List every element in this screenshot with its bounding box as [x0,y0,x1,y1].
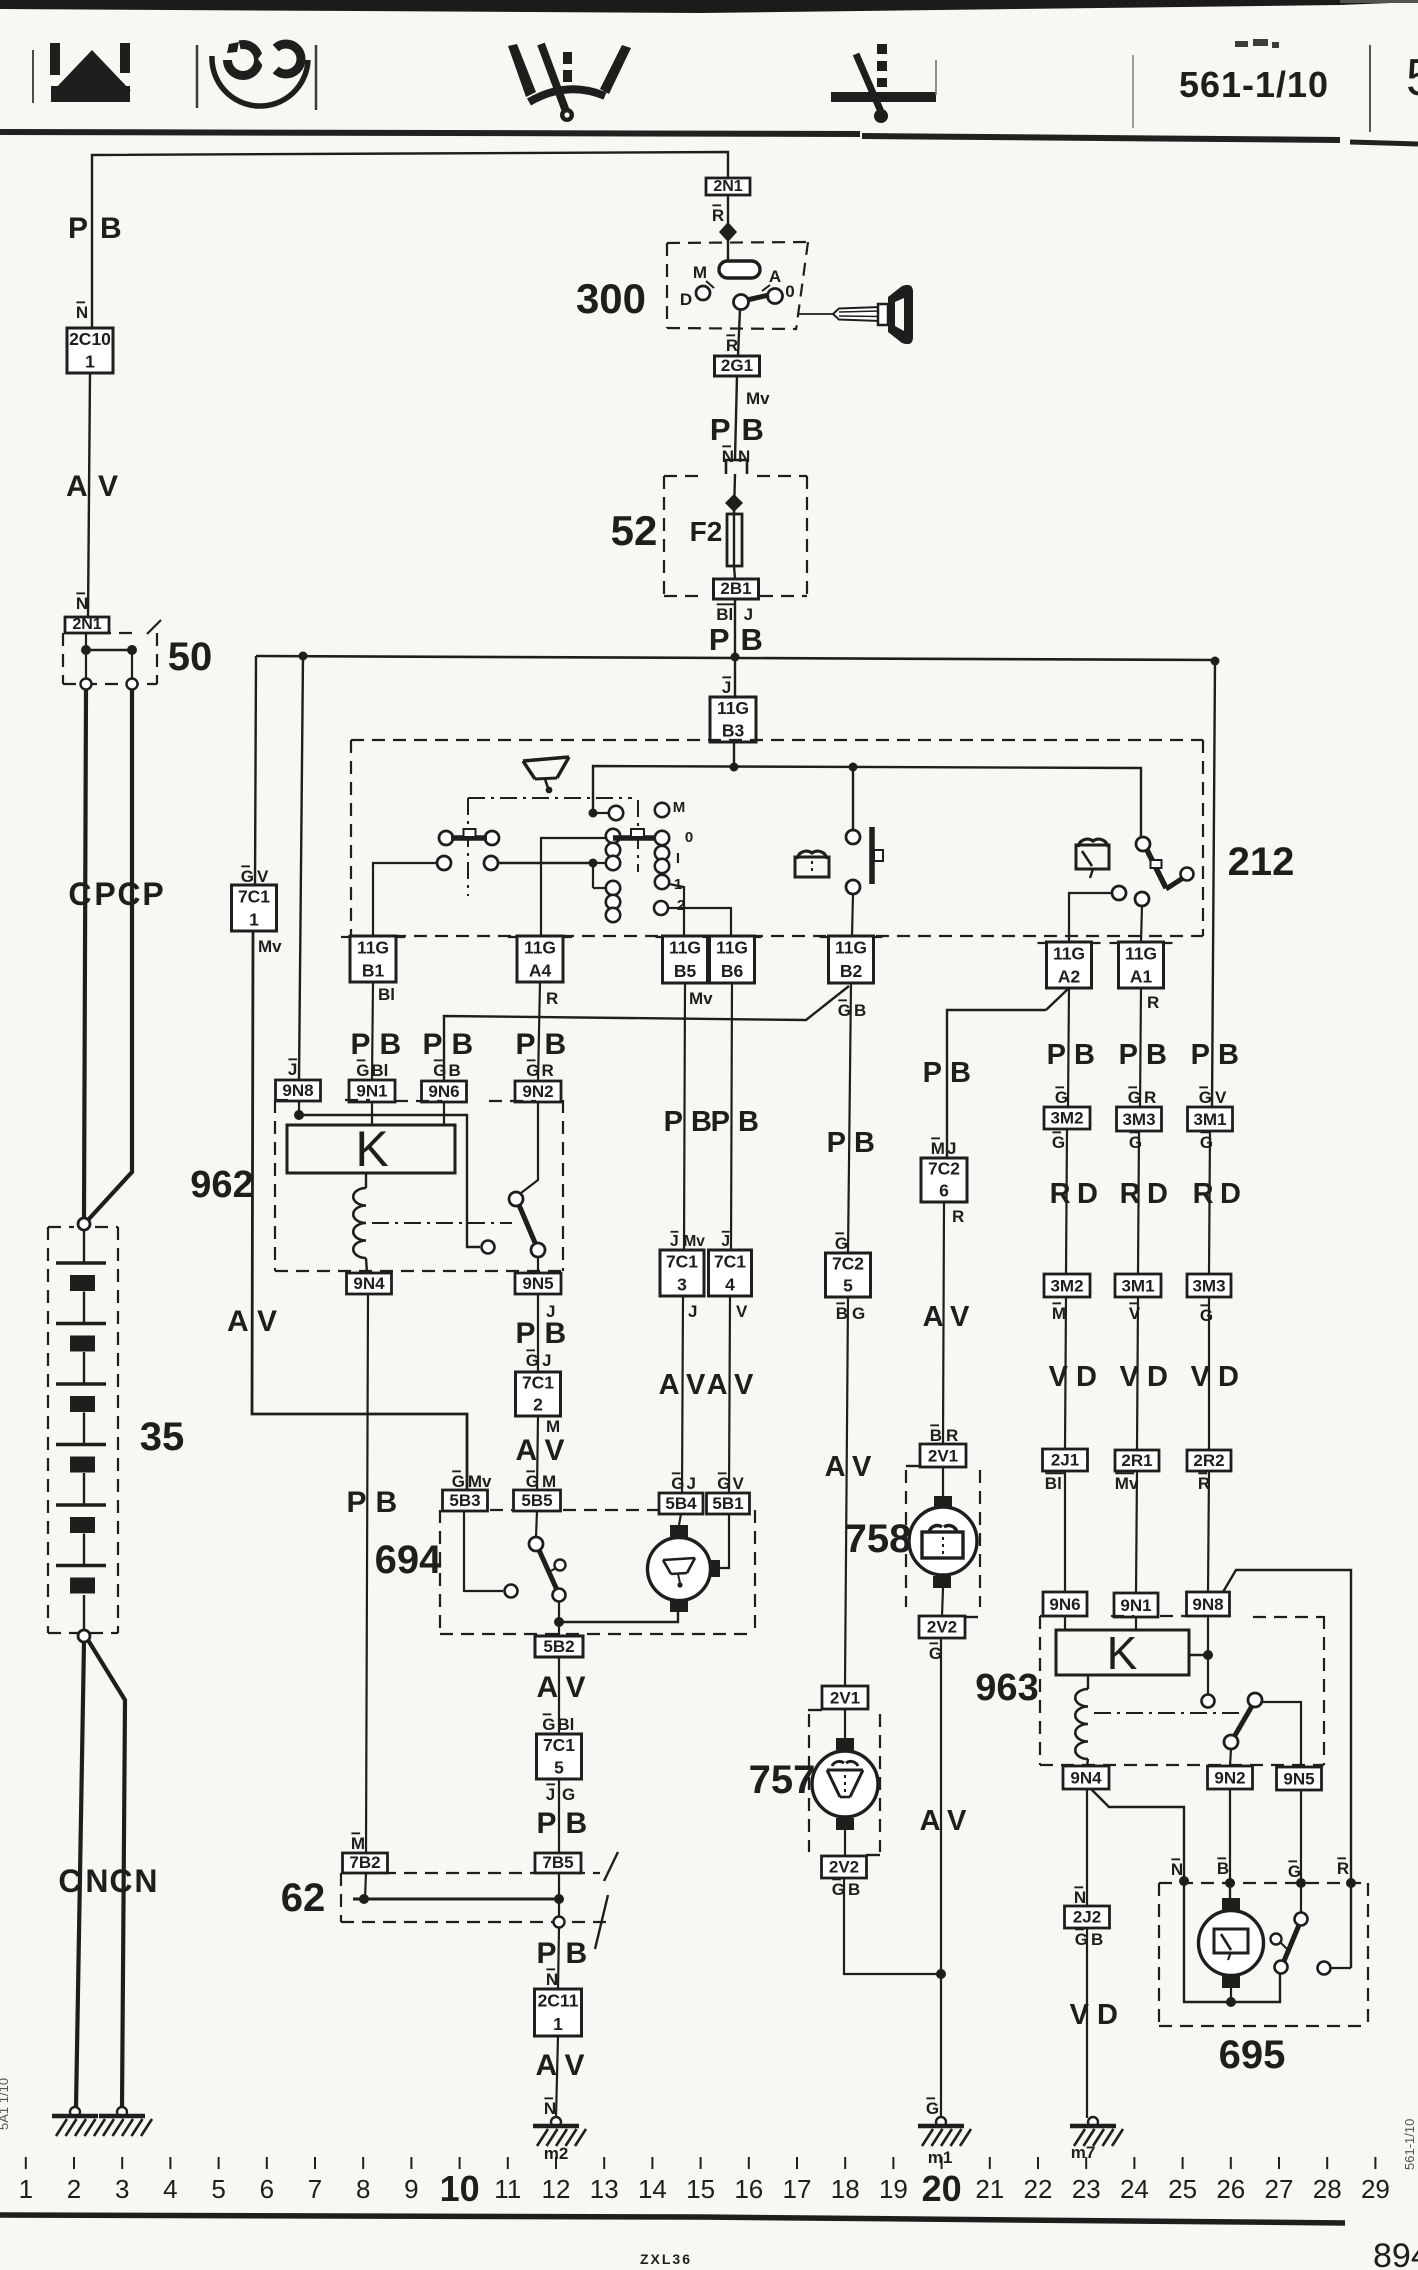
wires: 2J/2R row to 9N row [1064,1471,1066,1592]
node: N junction on 695 [1179,1876,1189,1886]
node: distribution junction at B3 [730,763,739,772]
svg-text:7: 7 [308,2174,322,2204]
relay NC contact circle [482,1241,495,1254]
svg-text:R: R [1050,1178,1071,1210]
svg-text:9N2: 9N2 [522,1082,553,1101]
svg-text:2B1: 2B1 [720,579,751,598]
connector 11G B3 [710,697,756,742]
connector 9N1 (right) [1114,1593,1158,1617]
connector 11G B2 [829,936,874,983]
svg-text:50: 50 [168,635,213,679]
wire: 11G B6 to 7C1-4 [731,983,732,1250]
svg-text:D: D [1097,1999,1118,2031]
connector 2N1 (left) [65,617,109,633]
svg-text:9N8: 9N8 [1192,1595,1223,1614]
connector 7C1 pin 5 [537,1734,582,1779]
wire: pump 758 to 2V2 [942,1588,943,1616]
svg-text:Bl: Bl [557,1715,574,1734]
svg-text:P: P [347,1486,367,1519]
svg-text:1: 1 [19,2174,33,2204]
node: bus corner right [1211,657,1220,666]
svg-text:4: 4 [163,2174,177,2204]
svg-text:2R1: 2R1 [1121,1451,1152,1470]
svg-text:V: V [98,470,118,503]
wire: park switch to 5B2 junction [558,1601,560,1636]
relay mechanical dash-dot link [372,1222,512,1224]
header icon: rear wiper pictogram [831,44,936,123]
wire: switch distribution line [593,766,1141,838]
svg-text:A: A [537,1671,559,1704]
svg-text:7B2: 7B2 [349,1853,380,1872]
connector 9N6 (left) [422,1081,467,1102]
connector 2V2 (front pump) [822,1856,867,1878]
svg-text:A: A [923,1301,944,1333]
svg-text:7C2: 7C2 [832,1254,864,1274]
svg-text:G: G [526,1472,539,1491]
svg-text:D: D [1220,1178,1241,1210]
svg-text:B: B [691,1106,712,1138]
node: pump earth junction [936,1969,946,1979]
svg-text:D: D [1077,1178,1098,1210]
wire: washer button to 11G B1 [373,863,437,936]
ignition switch 300 dashed box [667,242,808,243]
svg-text:9N1: 9N1 [356,1082,387,1101]
svg-text:29: 29 [1361,2174,1390,2204]
connector 2V2 (rear pump) [919,1616,965,1638]
svg-text:G: G [452,1472,465,1491]
svg-text:561-1/10: 561-1/10 [1402,2119,1417,2170]
svg-text:J: J [688,1302,697,1321]
svg-text:3M3: 3M3 [1122,1110,1155,1129]
svg-text:11G: 11G [835,938,867,958]
svg-text:B: B [376,1486,398,1519]
svg-text:2J1: 2J1 [1051,1451,1079,1470]
relay coil [365,1173,367,1188]
wire: 7C1-5 to 7B5 [558,1779,560,1853]
connector 2R1 [1115,1450,1159,1471]
svg-text:D: D [1147,1178,1168,1210]
connector 9N4 (right) [1063,1766,1109,1789]
rear wiper switch (in 212) [1112,837,1194,906]
svg-text:B: B [950,1057,971,1089]
svg-text:N: N [546,1970,558,1989]
svg-text:P: P [94,876,115,912]
svg-text:B: B [1217,1859,1229,1878]
svg-text:7C1: 7C1 [714,1251,746,1271]
svg-text:A4: A4 [529,960,552,980]
bottom border line [0,2215,1345,2223]
wire: ignition pivot to 2G1 [738,309,740,356]
svg-text:G: G [1288,1862,1301,1881]
svg-text:P: P [142,876,163,912]
svg-text:2G1: 2G1 [721,356,753,375]
svg-text:17: 17 [783,2174,812,2204]
svg-text:M: M [1052,1304,1066,1323]
inline connector staple symbol [726,460,747,474]
svg-text:V: V [257,1305,277,1338]
svg-text:R: R [542,1061,554,1080]
svg-text:C: C [68,876,91,912]
svg-text:M: M [351,1834,365,1853]
wire: top feed from battery column to ignition connector 2N1 [92,152,728,330]
node: G junction on 695 [1296,1878,1306,1888]
wire: 9N6 into K (963) [1064,1616,1066,1630]
wire: 5B1 to motor second brush [720,1514,729,1568]
svg-text:9N4: 9N4 [1070,1768,1102,1787]
node: junction under wiper motor [554,1617,564,1627]
wire: 2V2 to earth junction [844,1878,941,1974]
svg-text:G: G [838,1001,851,1020]
smudge mark above page reference [1235,39,1279,48]
wire: 2C10 to 2N1 [88,373,90,617]
relay switch (962) [509,1192,523,1206]
connector 11G A4 [517,936,563,982]
wire: 7C1-1 down and across to 5B3 [252,931,467,1490]
svg-text:1: 1 [249,909,259,929]
svg-text:2V2: 2V2 [927,1618,957,1637]
svg-text:B2: B2 [840,961,863,981]
wire: 2C11 to earth m2 [556,2036,558,2117]
svg-text:962: 962 [190,1164,253,1206]
wire: 11G B2 branch to 9N6 [444,986,849,1081]
wire: 2V1 to pump 757 [844,1709,846,1739]
front washer pump motor 757 [812,1738,878,1830]
svg-text:A: A [659,1369,680,1401]
connector 7C1 pin 1 [232,885,277,931]
wire: 9N4 to 2J2 [1086,1789,1088,1906]
svg-text:963: 963 [975,1667,1038,1709]
connector 3M1 (upper) [1188,1107,1233,1131]
svg-text:V: V [733,1474,745,1493]
contact circle 0/A [768,289,783,304]
wire: 11G B5 to 7C1-3 [684,983,685,1250]
wire: 2N1 to ignition switch [727,195,729,261]
svg-text:J: J [546,1785,555,1804]
svg-text:G: G [852,1304,865,1323]
header icon: ignition/steering-lock pictogram [212,33,308,106]
svg-text:R: R [546,989,558,1008]
node: bus junction at 9N8 feed [299,652,308,661]
svg-text:14: 14 [638,2174,667,2204]
svg-text:A: A [536,2049,558,2082]
wires: upper 3M row to lower 3M row [1066,1129,1067,1274]
svg-text:D: D [1147,1361,1168,1393]
fuse box 52 dashed outline [663,476,665,596]
wire: 9N8 junction to relay NC contact [299,1115,480,1247]
svg-text:11: 11 [494,2174,521,2204]
header icon: windscreen wiper-washer pictogram [508,44,631,122]
rear motor park switch [1295,1913,1308,1926]
connector 11G B5 [663,936,708,983]
svg-text:J: J [947,1139,956,1158]
svg-text:Mv: Mv [689,989,713,1008]
connector 2B1 [714,579,759,599]
svg-text:21: 21 [975,2174,1004,2204]
svg-text:27: 27 [1265,2174,1294,2204]
svg-text:P: P [923,1057,942,1089]
svg-text:2C10: 2C10 [69,329,111,349]
svg-text:ZXL36: ZXL36 [640,2251,692,2267]
connector 2V1 (rear pump) [920,1444,966,1467]
wire: 7C1-4 to 5B1 [729,1296,730,1493]
svg-text:3M1: 3M1 [1193,1110,1226,1129]
connector 9N6 (right) [1043,1592,1087,1616]
svg-text:5B1: 5B1 [712,1494,743,1513]
wire: 9N8 link over to rear-wiper unit [1223,1570,1351,1968]
connector 11G A1 [1119,942,1164,988]
front wiper motor 694 [648,1525,721,1612]
svg-text:N: N [738,447,750,466]
svg-text:2V1: 2V1 [830,1688,860,1707]
svg-text:F2: F2 [690,516,723,547]
svg-text:K: K [355,1121,388,1177]
svg-text:R: R [1144,1088,1156,1107]
svg-text:R: R [1193,1178,1214,1210]
contact circle D [696,286,710,300]
front washer pushbutton (in 212) [437,829,499,870]
wire: 9N5 to 7C1-2 [537,1294,539,1372]
svg-text:3: 3 [677,1274,687,1294]
wire: bus junction down to 9N8 (wiper relay) [299,656,303,1080]
svg-text:A2: A2 [1058,966,1081,986]
svg-text:7C1: 7C1 [666,1251,698,1271]
svg-text:N: N [544,2099,556,2118]
node: junction dots in unit 50 [85,633,87,650]
svg-text:P: P [1119,1039,1138,1071]
ignition rotor lever [747,295,769,300]
svg-text:G: G [1129,1133,1142,1152]
connector 3M2 (upper) [1044,1107,1090,1129]
wire: 9N1 into K box [371,1102,373,1125]
park switch NC contact (695) [1318,1962,1331,1975]
svg-text:B: B [930,1426,942,1445]
svg-text:6: 6 [260,2174,274,2204]
svg-text:M: M [673,799,686,816]
wire: staple to fuse F2 [734,474,735,514]
svg-text:2N1: 2N1 [713,178,742,195]
svg-text:18: 18 [831,2174,860,2204]
rear washer pump motor 758 [909,1496,977,1588]
svg-text:G: G [671,1474,684,1493]
svg-text:758: 758 [845,1517,912,1561]
svg-text:Bl: Bl [371,1061,388,1080]
svg-text:V: V [1120,1361,1140,1393]
svg-text:2: 2 [533,1395,543,1415]
svg-text:V: V [950,1301,970,1333]
svg-text:23: 23 [1072,2174,1101,2204]
connector 2C11 pin 1 [535,1989,582,2036]
svg-text:A: A [825,1451,846,1483]
wire: 2B1 to supply bus [734,598,736,657]
svg-text:R: R [1337,1859,1349,1878]
svg-text:P: P [709,622,730,657]
park switch NC contact circle [505,1585,518,1598]
svg-text:B3: B3 [722,720,745,740]
svg-text:11G: 11G [1053,943,1085,963]
svg-text:A: A [707,1369,728,1401]
svg-text:M: M [693,263,707,282]
wire: 9N1 into K (963) [1135,1617,1137,1630]
node: motor minus junction [1226,1997,1236,2007]
wire: thick battery lead left (C P) [84,690,86,1217]
wire: pump 757 to 2V2 [844,1830,846,1856]
svg-text:9N5: 9N5 [522,1274,553,1293]
ground m7 [1088,2117,1098,2127]
svg-text:B: B [449,1061,461,1080]
svg-text:12: 12 [542,2174,571,2204]
connector 7B2 [343,1853,388,1873]
svg-text:G: G [1055,1088,1068,1107]
svg-text:B: B [742,412,764,447]
svg-text:2R2: 2R2 [1193,1451,1224,1470]
connector 11G B1 [350,936,396,982]
svg-text:P: P [664,1106,683,1138]
svg-text:212: 212 [1228,840,1295,884]
wire: 9N5 to rear motor switch [1300,1790,1302,1913]
svg-text:m1: m1 [928,2148,953,2167]
svg-text:2V1: 2V1 [928,1446,958,1465]
connector 2J2 [1065,1906,1110,1928]
wire: 7B2 into link [365,1873,366,1899]
svg-text:1: 1 [85,351,95,371]
wire: 11G A4 to 9N2 [538,982,540,1081]
top scan edge bar [0,0,1418,13]
wire: bus left end down to 7C1 pin1 [255,656,256,885]
svg-text:P: P [68,212,88,245]
wire: rear pump feed from 11G A2 branch [947,1010,1046,1158]
svg-text:G: G [562,1785,575,1804]
connector 3M2 (lower) [1044,1274,1090,1297]
svg-text:V: V [947,1805,967,1837]
svg-text:V: V [257,867,269,886]
svg-text:9: 9 [404,2174,418,2204]
wire: 11G B1 to 9N1 [372,982,373,1080]
svg-text:300: 300 [576,275,646,322]
svg-text:B: B [836,1304,848,1323]
svg-text:B: B [1218,1039,1239,1071]
svg-text:P: P [827,1127,846,1159]
terminal circles at bottom of unit 50 [81,679,92,690]
wiper rotary switch contacts (in 212) [593,803,669,922]
svg-text:K: K [1107,1627,1138,1679]
battery 35 dashed box [47,1227,49,1633]
svg-text:R: R [952,1207,964,1226]
node: 9N8 junction (963) [1203,1650,1213,1660]
junction unit 62 dashed box [341,1872,600,1874]
node: bus junction at 11G B3 feed [731,653,740,662]
svg-text:P: P [537,1937,557,1970]
rear wiper motor unit 695 dashed box [1159,1882,1368,1884]
svg-text:A: A [516,1434,538,1467]
svg-text:J: J [687,1474,696,1493]
connector 3M3 (lower) [1187,1274,1231,1297]
connector 9N5 (left) [515,1273,561,1294]
svg-text:G: G [1052,1133,1065,1152]
svg-text:N: N [722,447,734,466]
svg-text:Mv: Mv [1115,1474,1139,1493]
wire: 5B4 to motor plus [679,1514,681,1525]
splice diamond in fuse box [725,494,743,512]
wire: 7C1-3 to 5B4 [682,1296,683,1493]
wire: position-2 contact to 11G B6 [668,908,731,936]
svg-text:B: B [100,212,122,245]
svg-text:16: 16 [734,2174,763,2204]
svg-text:C: C [117,876,140,912]
svg-text:P: P [710,412,731,447]
wire: rear wiper switch to 11G A1 [1141,906,1142,942]
wire: 5B5 to park switch [536,1511,537,1537]
wire: fuse to 2B1 [734,566,735,579]
svg-text:2: 2 [67,2174,81,2204]
wire: 11G A1 down [1140,988,1141,1107]
connector 9N1 (left) [349,1080,395,1102]
header bottom border [0,132,860,134]
wire: switch to 9N2 (963) [1230,1749,1231,1766]
svg-text:G: G [356,1061,369,1080]
connector 2V1 (front pump) [822,1686,868,1709]
connector 9N2 (right) [1208,1766,1253,1789]
svg-text:N: N [85,1863,108,1899]
relay 963 dash-dot link [1094,1712,1240,1714]
svg-text:5A1 1/10: 5A1 1/10 [0,2078,11,2130]
svg-text:P: P [1191,1039,1210,1071]
svg-text:G: G [1200,1133,1213,1152]
svg-text:5: 5 [554,1757,564,1777]
wire: battery last cell to bottom terminal [83,1595,85,1630]
svg-text:N: N [1074,1888,1086,1907]
connector 7B5 [535,1853,581,1873]
svg-text:22: 22 [1024,2174,1053,2204]
svg-text:J: J [542,1351,551,1370]
svg-text:G: G [526,1061,539,1080]
svg-text:7C1: 7C1 [238,886,270,906]
svg-text:G: G [241,867,254,886]
connector 9N8 (left) [276,1080,321,1101]
ground (right battery earth) [117,2107,127,2117]
svg-text:11G: 11G [357,937,389,957]
svg-text:5B2: 5B2 [543,1637,574,1656]
connector 3M1 (lower) [1115,1274,1161,1297]
node: switch common junction [589,859,598,868]
svg-text:4: 4 [725,1274,735,1294]
wire: switch to 9N5 (963) [1262,1702,1301,1767]
node: 9N8 junction in relay [294,1110,304,1120]
svg-text:B: B [452,1028,474,1061]
connector 2G1 [715,356,760,376]
svg-text:7C1: 7C1 [522,1373,554,1393]
svg-text:V: V [686,1369,706,1401]
ignition key symbol [799,285,913,344]
wire: thick ground lead left (C N) [76,1642,84,2108]
svg-text:13: 13 [590,2174,619,2204]
svg-text:894: 894 [1373,2237,1418,2270]
svg-text:P: P [711,1106,730,1138]
svg-text:J: J [721,1233,730,1250]
header divider lines [32,50,34,103]
svg-text:V: V [1049,1361,1069,1393]
ground m1 [936,2117,946,2127]
wire: 2J2 to earth m7 [1086,1928,1088,2118]
svg-text:B: B [545,1317,567,1350]
relay 963 winding box K [1056,1630,1189,1675]
link wire in unit 62 [353,1898,559,1901]
wire: unit 62 to 2C11 [558,1928,559,1989]
svg-text:757: 757 [749,1758,816,1802]
connector 7C1 pin 4 [709,1250,752,1296]
svg-text:11G: 11G [669,938,701,958]
svg-text:D: D [1218,1361,1239,1393]
svg-text:G: G [433,1061,446,1080]
